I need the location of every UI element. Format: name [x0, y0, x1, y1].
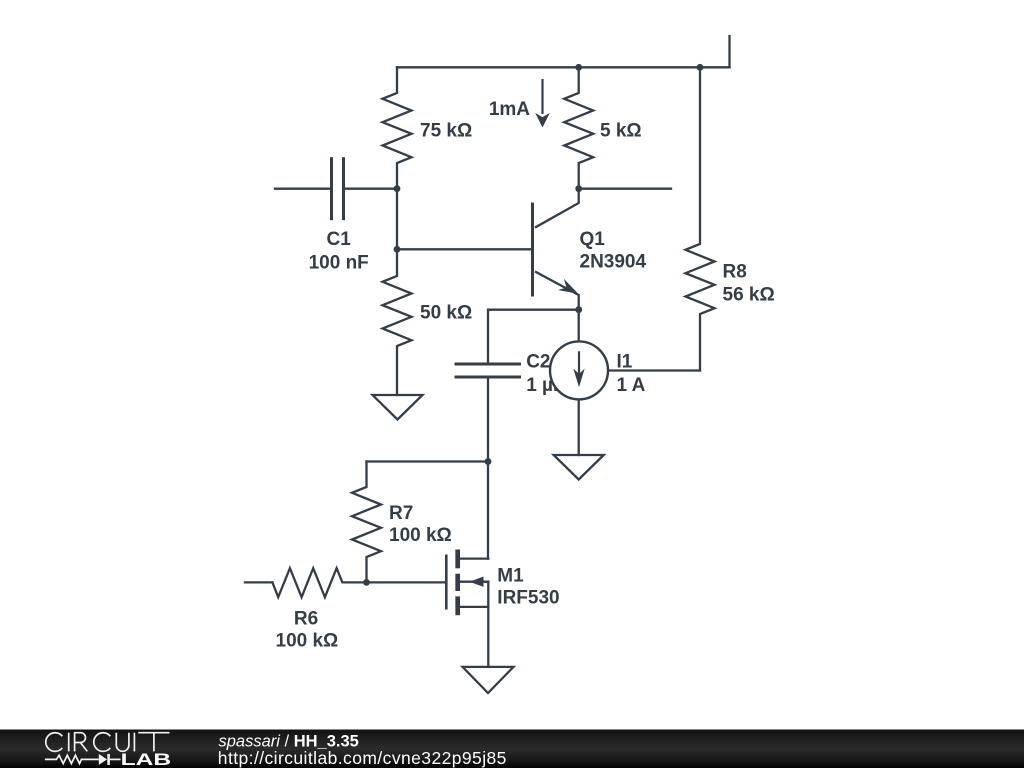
current source I1 arrow [578, 351, 580, 374]
mosfet M1 body arrow [470, 577, 484, 587]
svg-text:1mA: 1mA [489, 99, 530, 120]
svg-text:R6: R6 [294, 608, 318, 629]
wire top rail [397, 66, 730, 68]
svg-text:100 kΩ: 100 kΩ [389, 525, 452, 546]
footer bar [0, 730, 1024, 769]
wire input stub [245, 581, 272, 583]
ground G2 [554, 455, 604, 480]
junction node top rail / R8 [697, 64, 704, 71]
svg-text:Q1: Q1 [580, 229, 606, 250]
transistor Q1 collector [536, 189, 579, 227]
transistor Q1 base bar [531, 204, 534, 295]
wire node G down to M1 drain [487, 462, 489, 559]
ground G1 [373, 395, 423, 420]
current arrow 1mA [541, 79, 543, 114]
svg-text:100 nF: 100 nF [309, 253, 369, 274]
svg-text:1 A: 1 A [617, 375, 646, 396]
svg-text:I1: I1 [617, 352, 633, 373]
mosfet M1 body contact [460, 581, 488, 583]
wire base [397, 248, 533, 250]
current source I1 circle [550, 341, 608, 399]
wire M1 source down [487, 582, 489, 667]
junction node B [394, 246, 401, 253]
mosfet M1 channel bars [455, 550, 460, 616]
resistor 5k (leads + zigzag) [564, 67, 593, 188]
resistor R6 (zigzag horizontal) [272, 568, 366, 597]
svg-text:C1: C1 [327, 229, 352, 250]
wire collector stub right [579, 188, 671, 190]
capacitor C1 plates [332, 159, 344, 219]
svg-text:IRF530: IRF530 [497, 587, 559, 608]
resistor 75k (leads + zigzag) [383, 67, 412, 188]
VCC stub [728, 36, 730, 67]
logo CIRCUIT [46, 733, 170, 752]
logo zigzag [45, 755, 99, 763]
transistor Q1 emitter [536, 272, 579, 310]
junction node gate [363, 579, 370, 586]
svg-text:http://circuitlab.com/cvne322p: http://circuitlab.com/cvne322p95j85 [218, 748, 507, 768]
junction node collector [575, 185, 582, 192]
wire R8 to I1 [608, 369, 700, 371]
junction node top rail / 5k [575, 64, 582, 71]
mosfet M1 gate bar [445, 556, 448, 608]
junction node A [394, 185, 401, 192]
capacitor C1 right lead [344, 188, 398, 190]
svg-text:R8: R8 [723, 262, 747, 283]
mosfet M1 drain contact [460, 557, 488, 559]
svg-text:100 kΩ: 100 kΩ [276, 631, 339, 652]
wire I1 top lead [578, 310, 580, 342]
svg-text:C2: C2 [526, 352, 550, 373]
svg-text:M1: M1 [497, 566, 524, 587]
resistor R7 (leads + zigzag) [352, 462, 381, 583]
resistor R8 (leads + zigzag) [686, 67, 715, 370]
mosfet M1 source contact [460, 606, 488, 608]
junction node G [485, 458, 492, 465]
capacitor C2 bottom lead [487, 377, 489, 462]
svg-text:56 kΩ: 56 kΩ [723, 285, 775, 306]
capacitor C1 left stub [275, 188, 332, 190]
svg-text:R7: R7 [389, 503, 413, 524]
junction node emitter [575, 306, 582, 313]
transistor Q1 emitter arrowhead [558, 279, 578, 294]
svg-text:5 kΩ: 5 kΩ [600, 121, 642, 142]
resistor 50k (leads + zigzag) [383, 249, 412, 395]
logo diode [99, 754, 107, 765]
wire gate [367, 581, 447, 583]
svg-text:50 kΩ: 50 kΩ [420, 303, 472, 324]
svg-text:LAB: LAB [121, 750, 172, 768]
svg-text:75 kΩ: 75 kΩ [420, 121, 472, 142]
wire node G to R7 [367, 460, 489, 462]
ground G3 [463, 667, 514, 693]
wire emitter to C2 [488, 310, 579, 364]
wire I1 bottom lead [578, 400, 580, 455]
wire node A to node B [396, 189, 398, 250]
capacitor C2 plates [456, 364, 520, 377]
svg-text:2N3904: 2N3904 [580, 252, 647, 273]
